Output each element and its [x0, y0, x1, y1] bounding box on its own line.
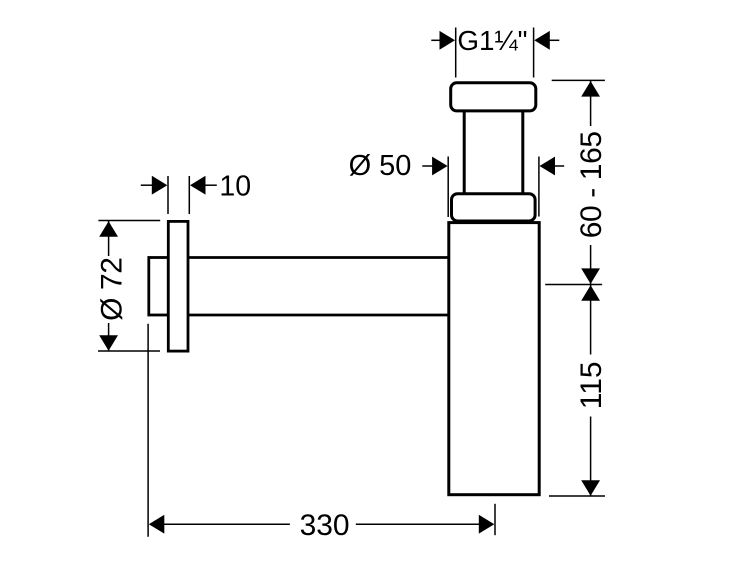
svg-text:10: 10	[219, 171, 251, 203]
svg-text:Ø 72: Ø 72	[96, 257, 129, 320]
svg-text:60 - 165: 60 - 165	[575, 131, 608, 238]
svg-text:G1¼": G1¼"	[457, 25, 527, 56]
svg-text:Ø 50: Ø 50	[349, 150, 412, 182]
svg-text:330: 330	[300, 509, 350, 542]
svg-text:115: 115	[575, 361, 608, 409]
